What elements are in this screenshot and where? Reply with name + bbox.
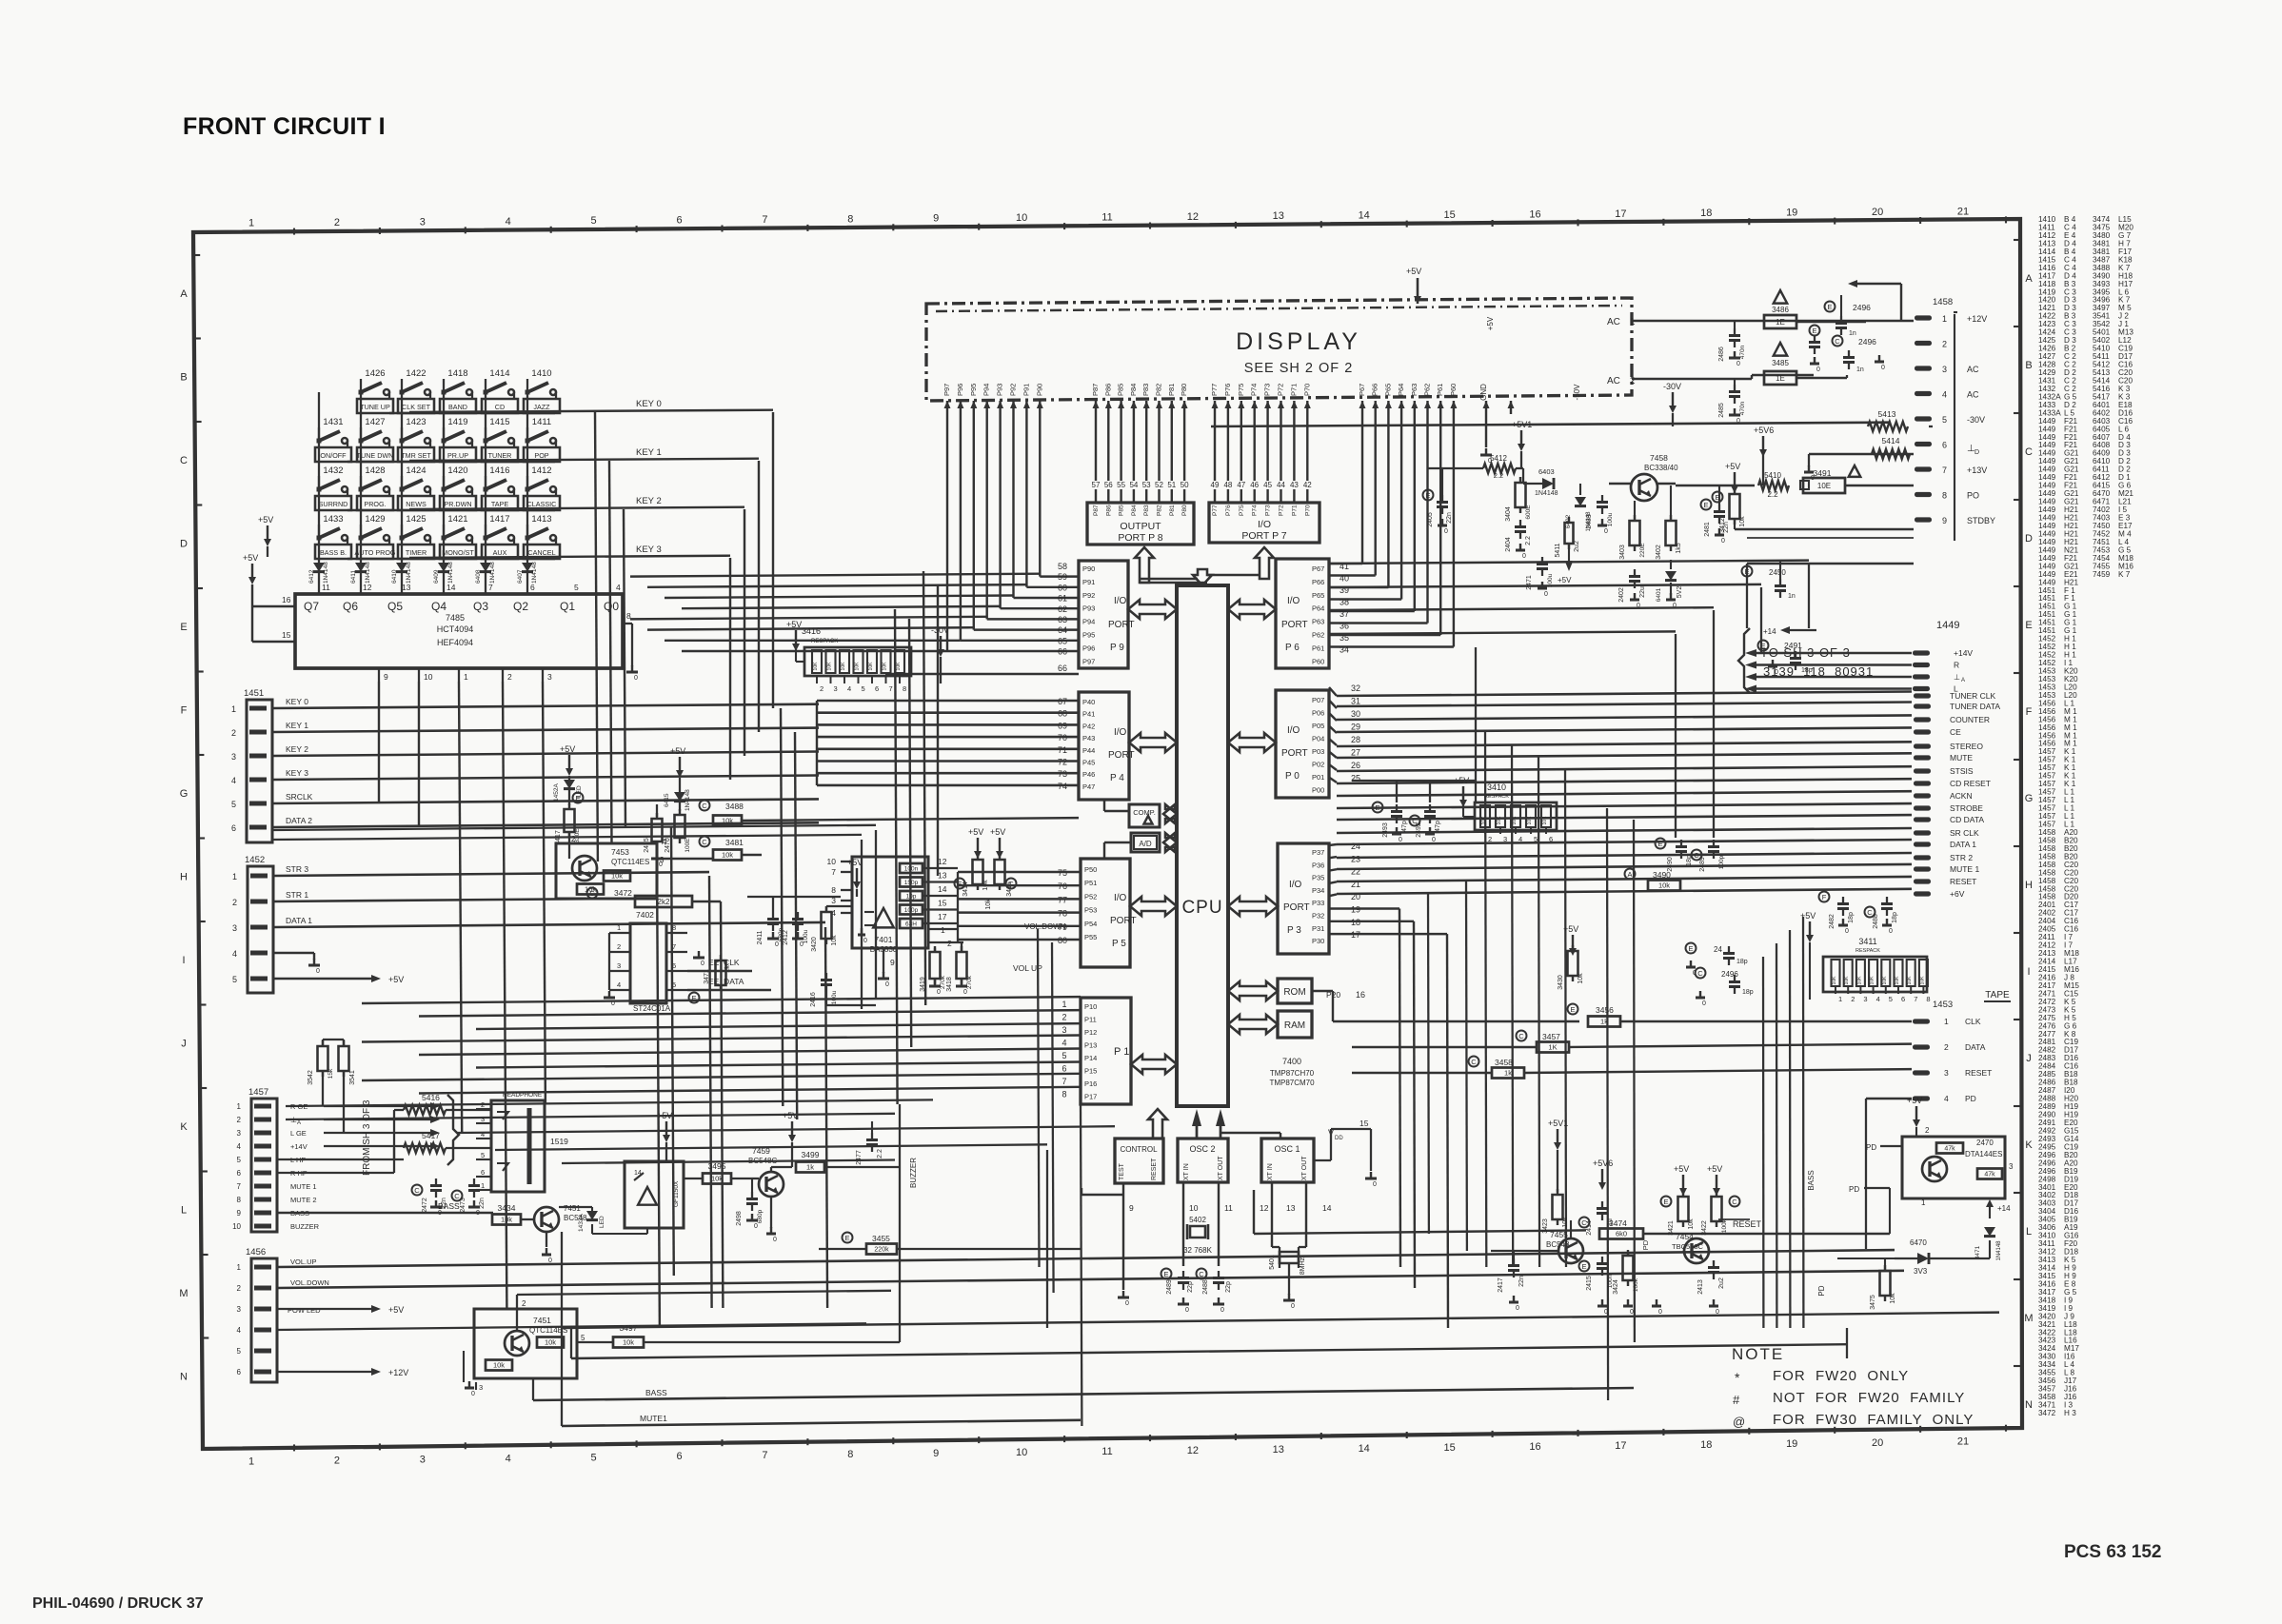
svg-text:4: 4	[1062, 1039, 1066, 1048]
svg-text:AC: AC	[1967, 365, 1979, 374]
svg-text:+5V: +5V	[1558, 576, 1572, 584]
brace FROM SH 3 OF 3	[447, 1095, 459, 1165]
svg-text:⊥: ⊥	[290, 1116, 297, 1124]
svg-text:7459: 7459	[2093, 570, 2111, 579]
svg-text:P12: P12	[1084, 1028, 1097, 1037]
svg-text:4: 4	[1944, 1094, 1949, 1103]
svg-text:P47: P47	[1082, 782, 1095, 791]
right bus verticals	[1485, 732, 1486, 1267]
capacitor 2496d 18p	[1686, 943, 1697, 954]
svg-text:12: 12	[938, 857, 947, 866]
svg-text:P77: P77	[1210, 384, 1219, 396]
svg-text:11: 11	[1101, 1446, 1112, 1457]
svg-text:3: 3	[1062, 1025, 1066, 1035]
svg-text:P92: P92	[1082, 591, 1095, 600]
svg-text:P74: P74	[1252, 505, 1259, 516]
svg-text:NOTE: NOTE	[1732, 1345, 1784, 1363]
svg-text:10: 10	[424, 672, 433, 682]
svg-text:B: B	[2025, 360, 2032, 371]
inductor 5411 2u2	[1565, 523, 1574, 544]
svg-text:P95: P95	[969, 384, 978, 396]
svg-text:4: 4	[481, 1130, 485, 1139]
svg-text:+5V6: +5V6	[1754, 426, 1774, 435]
svg-text:3404: 3404	[1505, 506, 1512, 522]
capacitor 2488b 18p	[1865, 907, 1875, 918]
svg-text:A: A	[1627, 870, 1632, 879]
svg-text:P 4: P 4	[1110, 773, 1124, 783]
svg-text:18: 18	[1700, 1439, 1712, 1451]
svg-text:0: 0	[471, 1391, 475, 1397]
display module DISPLAY	[926, 298, 1632, 401]
ground D net	[1809, 453, 1914, 456]
svg-text:P65: P65	[1312, 591, 1324, 600]
resistor 3414 10k	[977, 838, 979, 851]
svg-text:18p: 18p	[1742, 989, 1754, 996]
svg-text:E: E	[180, 622, 187, 633]
svg-text:51: 51	[1167, 481, 1176, 489]
svg-text:1N4148: 1N4148	[447, 562, 454, 584]
svg-text:10K: 10K	[868, 662, 874, 671]
svg-text:7: 7	[1914, 995, 1917, 1003]
capacitor 2490 18p	[1656, 839, 1666, 849]
wire KEY 2	[347, 509, 555, 511]
svg-text:22n: 22n	[479, 1198, 486, 1209]
svg-text:QTC114ES: QTC114ES	[611, 858, 649, 866]
resistor 3430 10k	[1572, 935, 1574, 948]
wire BASS from 1457	[277, 1212, 493, 1214]
svg-text:P97: P97	[943, 384, 951, 396]
svg-text:DD: DD	[1335, 1136, 1343, 1141]
svg-text:1412: 1412	[531, 465, 551, 476]
4094 bottom pins	[378, 668, 380, 682]
svg-text:2: 2	[334, 217, 340, 228]
adc A/D	[1131, 833, 1160, 852]
svg-text:P43: P43	[1082, 734, 1095, 743]
svg-text:10K: 10K	[841, 662, 846, 671]
svg-text:A: A	[1961, 678, 1965, 683]
svg-text:RESET: RESET	[1950, 877, 1976, 886]
svg-text:2404: 2404	[1505, 537, 1512, 552]
+5V1 riser	[1520, 430, 1522, 444]
svg-text:60: 60	[1058, 583, 1067, 592]
+5V 7459	[791, 1121, 793, 1135]
svg-text:2475: 2475	[644, 838, 650, 853]
svg-text:10K: 10K	[1527, 816, 1533, 825]
svg-text:8: 8	[847, 213, 853, 225]
svg-text:N: N	[180, 1372, 188, 1383]
svg-text:+12V: +12V	[1967, 314, 1987, 324]
svg-text:3491: 3491	[1814, 468, 1832, 478]
svg-text:1: 1	[1838, 995, 1842, 1003]
svg-text:M: M	[2024, 1313, 2033, 1324]
wire PD 1453	[1866, 1098, 1912, 1099]
svg-text:2417: 2417	[1498, 1277, 1504, 1293]
comparator COMP	[1129, 804, 1160, 827]
svg-text:1433: 1433	[323, 514, 343, 525]
svg-text:3475: 3475	[1870, 1295, 1876, 1310]
svg-text:13: 13	[1273, 210, 1284, 222]
svg-text:3458: 3458	[1495, 1058, 1513, 1067]
svg-text:0: 0	[1716, 1309, 1719, 1316]
svg-text:1411: 1411	[532, 417, 551, 427]
svg-text:P06: P06	[1312, 709, 1324, 718]
svg-text:OSC 1: OSC 1	[1274, 1144, 1300, 1154]
svg-text:P35: P35	[1312, 874, 1324, 882]
svg-text:P85: P85	[1119, 505, 1125, 516]
svg-text:STR 1: STR 1	[286, 890, 308, 900]
svg-text:1426: 1426	[365, 368, 385, 379]
svg-text:XT OUT: XT OUT	[1218, 1156, 1224, 1180]
svg-text:0: 0	[1604, 1309, 1608, 1316]
svg-text:64: 64	[1058, 625, 1067, 635]
wire p0 jogs	[1329, 687, 1337, 696]
svg-text:-30V: -30V	[1663, 382, 1681, 391]
bus misc mid horizontals	[286, 1099, 933, 1106]
svg-text:P87: P87	[1091, 384, 1100, 396]
svg-text:1416: 1416	[489, 465, 509, 476]
svg-text:3542: 3542	[308, 1070, 314, 1085]
svg-text:2: 2	[1630, 376, 1636, 386]
svg-text:9: 9	[384, 672, 388, 682]
svg-text:ROM: ROM	[1283, 987, 1305, 998]
svg-text:54: 54	[1129, 481, 1138, 489]
svg-text:C: C	[414, 1186, 420, 1195]
svg-text:0: 0	[1736, 361, 1740, 367]
svg-text:5413: 5413	[1878, 409, 1896, 419]
reset net wire	[1253, 1190, 1255, 1234]
svg-text:E: E	[1581, 1262, 1586, 1271]
svg-text:P60: P60	[1312, 657, 1324, 665]
svg-text:LED: LED	[599, 1216, 605, 1228]
svg-text:P90: P90	[1035, 384, 1043, 396]
capacitor 2401 22n	[1701, 500, 1712, 510]
svg-text:7451: 7451	[564, 1204, 581, 1213]
svg-text:470n: 470n	[1739, 345, 1746, 359]
svg-text:TIMER: TIMER	[406, 548, 427, 557]
svg-text:1453: 1453	[1933, 1000, 1953, 1010]
svg-text:1n: 1n	[1849, 330, 1856, 337]
svg-text:3: 3	[547, 672, 552, 682]
svg-text:11: 11	[1224, 1203, 1233, 1213]
svg-text:2411: 2411	[757, 930, 764, 944]
wire STDBY net	[1747, 563, 1914, 564]
svg-text:C: C	[2025, 446, 2033, 458]
svg-text:COUNTER: COUNTER	[1950, 715, 1990, 724]
svg-text:1: 1	[1921, 1198, 1926, 1207]
svg-text:+5V: +5V	[1563, 924, 1578, 934]
svg-text:1: 1	[231, 704, 236, 714]
svg-text:2414: 2414	[1586, 1220, 1593, 1236]
svg-text:10k: 10k	[711, 1175, 723, 1183]
svg-text:20: 20	[1872, 1437, 1883, 1449]
svg-text:P71: P71	[1291, 505, 1298, 516]
svg-text:10k: 10k	[493, 1361, 505, 1370]
svg-text:HEF4094: HEF4094	[437, 638, 473, 647]
svg-text:0: 0	[937, 989, 941, 996]
svg-text:K: K	[180, 1121, 188, 1133]
svg-text:10K: 10K	[1832, 976, 1837, 985]
+5V opamp	[856, 868, 858, 881]
svg-text:MONO/ST: MONO/ST	[442, 548, 474, 557]
svg-text:+5V: +5V	[1674, 1164, 1689, 1174]
svg-text:0: 0	[754, 1223, 758, 1230]
svg-text:40: 40	[1339, 574, 1349, 584]
svg-text:21: 21	[1957, 206, 1969, 217]
+5V1 7456	[1557, 1129, 1558, 1142]
svg-text:7402: 7402	[636, 910, 654, 920]
svg-text:STROBE: STROBE	[1950, 803, 1983, 813]
svg-text:P75: P75	[1237, 384, 1245, 396]
svg-text:C: C	[1518, 1032, 1524, 1040]
svg-text:BASS: BASS	[1807, 1170, 1816, 1190]
1458 bracket	[1954, 314, 1955, 541]
svg-text:1N4148: 1N4148	[323, 562, 329, 584]
cpu bottom arrows	[1148, 1109, 1167, 1139]
svg-text:FOR FW30 FAMILY ONLY: FOR FW30 FAMILY ONLY	[1773, 1412, 1974, 1428]
svg-text:2: 2	[1488, 835, 1492, 843]
svg-text:POP: POP	[534, 451, 548, 460]
svg-text:PORT: PORT	[1281, 748, 1308, 759]
svg-text:7: 7	[831, 867, 836, 877]
svg-text:P40: P40	[1082, 698, 1095, 706]
svg-text:P05: P05	[1312, 722, 1324, 730]
svg-text:1458: 1458	[1933, 297, 1953, 307]
svg-text:#: #	[1733, 1393, 1740, 1407]
svg-text:3455: 3455	[872, 1234, 890, 1243]
svg-text:10K: 10K	[883, 662, 888, 671]
svg-text:4: 4	[1942, 390, 1947, 400]
capacitor 2496b 1n	[1833, 336, 1843, 347]
svg-text:Q5: Q5	[387, 600, 403, 613]
svg-text:P53: P53	[1084, 906, 1097, 915]
svg-text:66: 66	[1058, 663, 1067, 673]
svg-text:6408: 6408	[475, 569, 482, 584]
svg-text:45: 45	[1263, 481, 1272, 489]
svg-text:470n: 470n	[1739, 401, 1746, 415]
svg-text:2496: 2496	[1721, 970, 1738, 979]
svg-text:P94: P94	[982, 384, 991, 396]
svg-text:10K: 10K	[1882, 976, 1888, 985]
1456 pin4 wire	[277, 1323, 866, 1330]
svg-text:2481: 2481	[1704, 522, 1711, 537]
1452 pin4 gnd	[273, 952, 314, 954]
svg-text:270k: 270k	[966, 975, 973, 989]
svg-text:15: 15	[1443, 1442, 1455, 1454]
wire PO net	[1747, 537, 1914, 539]
bus arrows CPU right	[1228, 600, 1276, 619]
resistor 3475 10k	[1880, 1271, 1891, 1296]
capacitor 2488 22p	[1213, 1277, 1224, 1279]
svg-text:P33: P33	[1312, 899, 1324, 907]
svg-text:8: 8	[831, 885, 836, 895]
svg-text:2470: 2470	[1976, 1139, 1994, 1147]
svg-text:1k: 1k	[806, 1163, 814, 1172]
svg-text:P83: P83	[1143, 505, 1150, 516]
svg-text:6: 6	[1901, 995, 1905, 1003]
svg-text:31: 31	[1351, 697, 1360, 706]
display pins port6 bus	[1361, 401, 1363, 430]
svg-text:4: 4	[237, 1142, 242, 1151]
svg-text:P 3: P 3	[1287, 925, 1301, 936]
svg-text:P17: P17	[1084, 1093, 1097, 1101]
svg-text:5: 5	[1062, 1051, 1066, 1060]
rom ROM	[1278, 979, 1312, 1003]
svg-text:2.2: 2.2	[877, 1149, 883, 1159]
svg-text:6: 6	[1549, 835, 1553, 843]
svg-text:1: 1	[481, 1181, 485, 1190]
svg-text:12: 12	[1260, 1203, 1269, 1213]
svg-text:0: 0	[634, 675, 638, 682]
svg-text:1414: 1414	[489, 368, 509, 379]
wire data2 from 4094	[418, 682, 420, 827]
svg-text:P80: P80	[1181, 505, 1188, 516]
svg-text:L: L	[181, 1205, 187, 1217]
crystal 5401 8MHz	[1271, 1183, 1273, 1247]
brace 1449	[1738, 628, 1750, 693]
svg-text:-50V: -50V	[1573, 384, 1581, 401]
svg-text:3456: 3456	[1596, 1005, 1614, 1015]
svg-text:66: 66	[1058, 647, 1067, 657]
svg-text:2.2: 2.2	[1767, 490, 1778, 499]
svg-text:P02: P02	[1312, 761, 1324, 769]
svg-text:A: A	[297, 1120, 301, 1126]
svg-text:3418: 3418	[946, 977, 953, 992]
svg-text:MUTE 1: MUTE 1	[1950, 864, 1979, 874]
svg-text:2: 2	[522, 1299, 526, 1308]
svg-text:2472: 2472	[422, 1198, 428, 1213]
svg-text:CD DATA: CD DATA	[1950, 815, 1984, 824]
svg-text:1418: 1418	[447, 368, 467, 379]
svg-text:N: N	[2025, 1399, 2033, 1411]
svg-text:+5V1: +5V1	[1548, 1119, 1568, 1128]
svg-text:DATA 1: DATA 1	[1950, 840, 1976, 849]
svg-text:6k0: 6k0	[1616, 1230, 1627, 1238]
svg-text:3420: 3420	[811, 937, 818, 952]
svg-text:2485: 2485	[1718, 403, 1725, 418]
svg-text:TAPE: TAPE	[491, 500, 508, 508]
svg-text:2471: 2471	[1526, 575, 1533, 590]
svg-text:ACKN: ACKN	[1950, 791, 1973, 801]
svg-text:2493: 2493	[1382, 822, 1389, 838]
svg-text:3: 3	[420, 216, 426, 228]
svg-text:SURRND: SURRND	[319, 500, 348, 508]
svg-text:1422: 1422	[406, 368, 426, 379]
svg-text:1449: 1449	[1936, 620, 1959, 631]
svg-text:P70: P70	[1304, 505, 1311, 516]
svg-text:220E: 220E	[1639, 543, 1646, 558]
svg-text:P45: P45	[1082, 759, 1095, 767]
svg-text:17: 17	[1615, 1440, 1626, 1452]
svg-text:P04: P04	[1312, 735, 1324, 743]
diode 6401 5V2	[1665, 571, 1677, 581]
svg-text:1: 1	[1062, 1000, 1066, 1009]
svg-text:10k: 10k	[1688, 1218, 1695, 1230]
svg-text:AC: AC	[1967, 390, 1979, 400]
svg-text:RESET: RESET	[1965, 1068, 1992, 1078]
svg-text:P31: P31	[1312, 924, 1324, 933]
svg-text:2488: 2488	[1202, 1279, 1209, 1295]
svg-text:TAPE: TAPE	[1985, 990, 2010, 1000]
capacitor 2492 47p	[1410, 816, 1420, 826]
svg-text:19: 19	[1786, 1438, 1797, 1450]
svg-text:3402: 3402	[1656, 545, 1662, 560]
svg-text:4: 4	[506, 216, 511, 228]
svg-text:+5V: +5V	[670, 746, 685, 756]
svg-text:16: 16	[1529, 1441, 1540, 1453]
svg-text:ON/OFF: ON/OFF	[320, 451, 347, 460]
+5V6 riser	[1762, 436, 1764, 449]
bus arrow CPU north	[1193, 569, 1212, 585]
svg-text:2405: 2405	[1427, 512, 1434, 527]
svg-text:10k: 10k	[623, 1338, 634, 1347]
svg-text:7401: 7401	[875, 935, 893, 944]
svg-text:1519: 1519	[550, 1137, 568, 1146]
svg-text:3412: 3412	[1719, 518, 1726, 533]
svg-text:1415: 1415	[489, 417, 509, 427]
svg-text:E: E	[1163, 1270, 1168, 1278]
svg-text:5: 5	[1942, 415, 1947, 425]
svg-text:P44: P44	[1082, 746, 1095, 755]
svg-text:+14V: +14V	[290, 1142, 308, 1151]
svg-text:3: 3	[1942, 365, 1947, 374]
svg-text:9: 9	[1942, 516, 1947, 525]
svg-text:12: 12	[1187, 211, 1199, 223]
svg-text:TUNE DWN: TUNE DWN	[357, 451, 394, 460]
svg-text:FOR FW20 ONLY: FOR FW20 ONLY	[1773, 1368, 1909, 1384]
matrix diodes 6412 6411 6410 6409 6408 6407	[313, 563, 325, 572]
svg-text:6: 6	[237, 1169, 242, 1178]
svg-text:10K: 10K	[1856, 976, 1862, 985]
svg-text:TEST: TEST	[1119, 1162, 1125, 1180]
svg-text:+5V: +5V	[243, 553, 258, 563]
svg-text:+5V1: +5V1	[1512, 420, 1532, 429]
svg-text:3422: 3422	[1701, 1220, 1708, 1236]
svg-text:A/D: A/D	[1139, 840, 1152, 848]
svg-text:0: 0	[773, 1237, 777, 1243]
svg-text:1N4148: 1N4148	[489, 562, 496, 584]
capacitor 2496a 1n	[1825, 302, 1836, 312]
svg-text:3: 3	[1503, 835, 1507, 843]
svg-text:3: 3	[1944, 1068, 1949, 1078]
svg-text:0: 0	[800, 941, 804, 948]
svg-text:1431: 1431	[323, 417, 343, 427]
svg-text:XT IN: XT IN	[1267, 1163, 1274, 1180]
resistor 3457 1K	[1517, 1031, 1527, 1041]
svg-text:H: H	[2025, 880, 2033, 891]
svg-text:1k: 1k	[1600, 1018, 1608, 1026]
svg-text:P87: P87	[1093, 505, 1100, 516]
svg-text:EE DATA: EE DATA	[708, 977, 744, 986]
svg-text:1n: 1n	[1788, 593, 1796, 600]
svg-text:0: 0	[1185, 1307, 1189, 1314]
svg-text:5V2: 5V2	[1677, 586, 1683, 599]
svg-text:1417: 1417	[489, 514, 509, 525]
svg-text:2: 2	[617, 942, 621, 951]
svg-text:PD: PD	[1965, 1094, 1976, 1103]
opamp 7401 BA3830	[852, 857, 928, 948]
svg-text:H: H	[180, 872, 188, 883]
svg-text:⊥: ⊥	[1954, 673, 1960, 682]
svg-text:10: 10	[827, 857, 837, 866]
wire +12V 1456	[277, 1371, 371, 1373]
svg-text:0: 0	[1889, 928, 1893, 935]
io port P5	[1081, 859, 1130, 967]
svg-text:1: 1	[617, 923, 621, 932]
svg-text:6401: 6401	[1656, 587, 1662, 602]
svg-text:D: D	[180, 539, 188, 550]
wire STR1 resistor 3472 2k2	[273, 899, 633, 901]
svg-text:5: 5	[237, 1347, 242, 1356]
